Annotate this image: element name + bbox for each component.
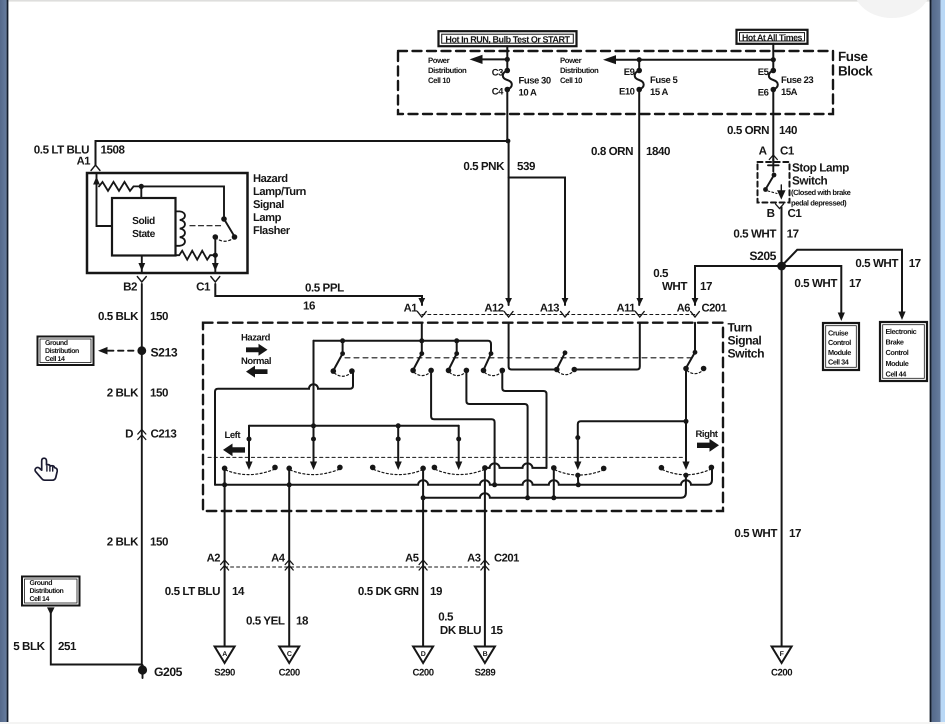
- label: Turn Signal Switch: [728, 321, 765, 361]
- ground node G205: [138, 665, 147, 678]
- switch S4: [481, 351, 505, 375]
- wire: C1 leg down with arrow: [212, 237, 219, 272]
- svg-text:B: B: [767, 207, 775, 220]
- wire: S205 to cruise control module with arrow: [782, 266, 845, 321]
- bus2 wire (lower output bus): [423, 475, 686, 498]
- wire: 0.5 PPL 16 from flasher C1 to switch A1: [215, 284, 422, 305]
- svg-text:S289: S289: [475, 668, 496, 679]
- node: left bus junction at hazard vertical: [311, 423, 316, 428]
- wire: A1 entry inside flasher with up arrow: [93, 174, 112, 226]
- wire: B2 leg down with arrow: [138, 256, 145, 272]
- node S213 splice: [137, 346, 146, 355]
- label: Hazard with right arrow: [241, 333, 271, 356]
- svg-text:C213: C213: [151, 428, 178, 441]
- wire: A11 entry down and left to S5 right contact: [574, 323, 640, 370]
- wire: S4 right contact staircase down to A3 contact link: [502, 370, 546, 468]
- svg-text:S290: S290: [214, 668, 235, 679]
- svg-text:0.5 WHT: 0.5 WHT: [855, 257, 898, 270]
- svg-text:A1: A1: [404, 302, 418, 314]
- node: dot on second wiper stub: [575, 435, 580, 440]
- svg-text:A1: A1: [77, 156, 91, 168]
- svg-text:Cell 44: Cell 44: [886, 369, 908, 378]
- svg-text:C1: C1: [788, 207, 803, 220]
- svg-text:539: 539: [517, 160, 536, 173]
- svg-text:Signal: Signal: [253, 199, 284, 211]
- connector triangle D / C200: [413, 647, 434, 679]
- resistor R1 in flasher: [99, 182, 141, 191]
- svg-text:150: 150: [150, 310, 168, 323]
- svg-text:Turn: Turn: [728, 321, 752, 335]
- stop lamp switch dashed box: [758, 162, 790, 203]
- hazard flasher module U1 outer box: [87, 173, 248, 273]
- svg-text:Switch: Switch: [792, 174, 828, 188]
- wire: left bus stub 3 with wiper arrow: [455, 426, 462, 470]
- svg-text:0.5: 0.5: [653, 267, 669, 280]
- svg-text:Electronic: Electronic: [886, 327, 917, 336]
- svg-text:Lamp: Lamp: [253, 212, 282, 224]
- node: junction on S6 left contact drop: [684, 419, 689, 424]
- wire: arrow to Power Distribution (middle fuse) from Hot At All Times feed: [603, 55, 773, 64]
- label box "Hot At All Times": [737, 30, 808, 44]
- svg-text:Block: Block: [838, 64, 873, 79]
- svg-text:0.5 LT BLU: 0.5 LT BLU: [165, 585, 220, 598]
- wire: second wiper contact to bus1: [577, 475, 580, 485]
- svg-text:Power: Power: [560, 56, 582, 65]
- svg-text:0.5 DK GRN: 0.5 DK GRN: [358, 585, 419, 598]
- svg-text:Solid: Solid: [132, 216, 155, 227]
- svg-text:15: 15: [491, 624, 504, 637]
- svg-text:Left: Left: [225, 430, 242, 441]
- wire: S3 right contact staircase down to bus2: [466, 370, 527, 497]
- connector triangle F / C200: [771, 647, 792, 679]
- node: stub dot on hazard vertical: [311, 437, 316, 442]
- node: left bus junction at 398.2: [396, 423, 401, 428]
- svg-text:B2: B2: [123, 281, 137, 294]
- svg-text:C3: C3: [492, 68, 503, 79]
- arrowhead: second right wiper (x=577.8): [574, 462, 581, 471]
- svg-text:Flasher: Flasher: [253, 225, 291, 237]
- wire: S205 left to turn signal switch A6: [695, 266, 782, 305]
- wire: junction down into solid state box: [140, 186, 142, 198]
- svg-text:2 BLK: 2 BLK: [107, 535, 139, 548]
- svg-text:Right: Right: [696, 429, 719, 440]
- label: Power Distribution Cell 10 (middle): [560, 56, 599, 85]
- ground distribution reference box (lower): [22, 577, 80, 606]
- svg-text:17: 17: [909, 257, 921, 270]
- node: bus1 junction at A4: [287, 482, 292, 487]
- connector chevron at stop lamp B: [776, 204, 784, 209]
- svg-text:1840: 1840: [646, 145, 670, 158]
- wire: 0.8 ORN from E10 down to A11: [638, 92, 640, 305]
- svg-text:14: 14: [232, 585, 245, 598]
- wire: 0.5 ORN from E6 down to stop lamp switch A: [772, 92, 774, 163]
- switch S1: [331, 351, 355, 376]
- svg-text:Power: Power: [428, 56, 450, 65]
- wire: hazard feed vertical from H1 down to left bus and wiper arrow: [313, 341, 315, 463]
- resistor R2 in flasher: [176, 251, 216, 260]
- wire: S6 left contact down to right wiper arrow: [685, 369, 687, 463]
- svg-text:S205: S205: [749, 249, 776, 263]
- wire: 0.5 WHT 17 from S205 down to C200 pin F: [781, 266, 783, 646]
- svg-text:150: 150: [150, 535, 168, 548]
- svg-text:Cell 14: Cell 14: [30, 595, 50, 603]
- svg-text:C4: C4: [492, 87, 504, 98]
- svg-text:0.5 WHT: 0.5 WHT: [734, 527, 777, 540]
- node: bus2 junction at A5: [421, 495, 426, 500]
- node S205 splice: [777, 262, 786, 271]
- wire: 5 BLK 251 from ground cell box to G205: [47, 607, 143, 669]
- svg-text:A3: A3: [467, 552, 481, 564]
- svg-text:1508: 1508: [101, 144, 126, 157]
- label: Hazard Lamp/Turn Signal Lamp Flasher: [253, 173, 307, 237]
- svg-text:140: 140: [779, 124, 797, 137]
- relay coil L1 on side of solid state box: [176, 211, 185, 245]
- fuse F1 "Fuse 30 10 A" pins C3/C4: [492, 68, 551, 99]
- svg-text:C1: C1: [196, 281, 211, 294]
- svg-text:0.5 PPL: 0.5 PPL: [305, 281, 344, 294]
- node: junction dot on C3 feed: [505, 57, 510, 62]
- node: bus1 junction at S2 staircase: [492, 482, 497, 487]
- svg-text:E9: E9: [624, 67, 635, 78]
- label box "Hot In RUN, Bulb Test Or START": [439, 31, 577, 46]
- node: bus2 junction at 553.8: [551, 495, 556, 500]
- cursor knuckles: [47, 466, 53, 471]
- wire: A1 entry down to switch S1 pivot: [421, 323, 423, 354]
- node: junction dot E9 feed: [637, 57, 642, 62]
- turn signal switch dashed box: [203, 323, 723, 511]
- svg-text:A2: A2: [207, 552, 221, 564]
- connector triangle A / S290: [214, 647, 235, 679]
- node: junction on C1 leg: [213, 253, 218, 258]
- svg-text:Cell 34: Cell 34: [828, 357, 850, 366]
- svg-text:0.8 ORN: 0.8 ORN: [591, 145, 633, 158]
- svg-text:17: 17: [849, 277, 861, 290]
- svg-text:Brake: Brake: [886, 338, 904, 347]
- label: Stop Lamp Switch: [791, 161, 851, 208]
- svg-text:D: D: [421, 651, 426, 658]
- svg-text:Distribution: Distribution: [560, 66, 599, 75]
- wire: A2 output 0.5 LT BLU 14: [224, 468, 226, 646]
- wire: 0.5 WHT 17 from stop lamp B down to S205: [781, 207, 783, 266]
- svg-text:Distribution: Distribution: [30, 587, 64, 595]
- dashed reference wire with arrow to ground cell box: [98, 347, 138, 355]
- svg-text:WHT: WHT: [662, 280, 687, 293]
- svg-text:(Closed with brake: (Closed with brake: [791, 188, 851, 197]
- mechanical link dashed line (upper switch row): [345, 357, 692, 359]
- wire: A6 entry down to S6 pivot: [694, 323, 696, 353]
- svg-text:Hot In RUN, Bulb Test Or START: Hot In RUN, Bulb Test Or START: [445, 35, 570, 45]
- svg-text:19: 19: [430, 585, 443, 598]
- svg-text:Signal: Signal: [728, 334, 762, 348]
- wire: right feed horizontal to second wiper stub: [578, 421, 686, 462]
- svg-text:C201: C201: [702, 302, 727, 314]
- svg-text:Hot At All Times: Hot At All Times: [742, 33, 802, 43]
- wire: stub H1 to S3 pivot: [456, 341, 458, 354]
- mechanical link dashed line (lower contact row): [208, 456, 684, 458]
- svg-text:C201: C201: [494, 552, 519, 564]
- wire: 0.5 BLK / 2 BLK ground run from B2 down to G205: [141, 284, 143, 669]
- svg-text:Lamp/Turn: Lamp/Turn: [253, 186, 307, 198]
- svg-text:Module: Module: [828, 348, 851, 357]
- wire: left bus stub 1 with wiper arrow: [245, 426, 252, 470]
- arrowhead: right wiper (x=686): [682, 462, 689, 471]
- svg-text:251: 251: [58, 640, 77, 653]
- node: bus2 junction at S3 staircase: [525, 495, 530, 500]
- wire: A12 entry down and right to S5 left contact: [509, 323, 557, 370]
- connector chevrons at A1,A12,A13,A11,A6: [417, 298, 699, 317]
- wire: stub H1 to S1 pivot: [342, 341, 344, 354]
- wire W3: A3 contact link (hops two verticals): [485, 463, 547, 468]
- wire: left bus stub 2 with wiper arrow: [395, 426, 402, 470]
- wire: S2 right contact staircase down to bus1: [431, 370, 495, 484]
- svg-text:State: State: [132, 229, 155, 240]
- svg-text:Distribution: Distribution: [428, 66, 467, 75]
- connector chevron at stop lamp A: [769, 155, 777, 160]
- svg-text:A4: A4: [271, 552, 286, 564]
- ground distribution reference box (upper): [38, 337, 94, 366]
- switch S6 (A6): [683, 350, 706, 374]
- svg-text:17: 17: [789, 527, 801, 540]
- contact dots row: [222, 465, 714, 478]
- wire: C4 fuse output down to junction with LT BLU feed, continues as 0.5 PNK to A12: [507, 92, 508, 305]
- svg-text:A6: A6: [677, 302, 691, 314]
- svg-text:C: C: [287, 651, 292, 658]
- svg-text:2 BLK: 2 BLK: [107, 386, 139, 399]
- svg-text:0.5 PNK: 0.5 PNK: [463, 160, 505, 173]
- connector triangle B / S289: [475, 647, 496, 679]
- svg-text:Ground: Ground: [45, 339, 68, 347]
- svg-text:A: A: [222, 651, 227, 658]
- wire: contact 553.8 down to bus2: [553, 468, 555, 498]
- svg-text:Stop Lamp: Stop Lamp: [792, 161, 849, 175]
- switch S3: [446, 351, 470, 375]
- dotted wiper arcs (contact row): [226, 469, 711, 475]
- svg-text:S213: S213: [151, 345, 178, 359]
- svg-text:Cruise: Cruise: [828, 329, 848, 338]
- node: H1 junction at S3: [454, 338, 459, 343]
- wire: hazard feed bus H1: [314, 341, 492, 354]
- svg-text:C1: C1: [780, 145, 795, 158]
- wire: Hot At All Times down to E5: [772, 44, 774, 71]
- svg-text:A13: A13: [540, 302, 559, 314]
- svg-text:15A: 15A: [781, 87, 798, 98]
- svg-text:0.5 YEL: 0.5 YEL: [246, 615, 285, 628]
- wire: branch from PNK wire to A13: [509, 178, 565, 306]
- svg-text:Fuse 5: Fuse 5: [650, 75, 679, 86]
- label: Right with right arrow: [696, 429, 720, 452]
- node: H1 junction at A1: [419, 338, 424, 343]
- svg-text:17: 17: [787, 228, 799, 241]
- wire: 0.5 LT BLU 1508 from fuse to flasher A1: [96, 141, 509, 166]
- svg-text:A11: A11: [616, 302, 635, 314]
- svg-text:10 A: 10 A: [519, 88, 538, 99]
- connector C213 pin D chevrons: [138, 430, 146, 440]
- svg-text:Ground: Ground: [30, 579, 53, 587]
- connector triangle C / C200: [279, 647, 300, 679]
- svg-text:15 A: 15 A: [650, 87, 669, 98]
- svg-text:Module: Module: [886, 359, 909, 368]
- connector chevrons at A2,A4,A5,A3: [221, 560, 489, 570]
- svg-text:Cell 14: Cell 14: [45, 355, 65, 363]
- svg-text:Fuse 23: Fuse 23: [781, 75, 813, 86]
- svg-text:Cell 10: Cell 10: [560, 76, 583, 85]
- electronic brake control module reference box: [880, 322, 927, 381]
- arrowhead: hazard wiper (x=313.5): [310, 462, 317, 471]
- fuse F2 "Fuse 5 15 A" pins E9/E10: [619, 60, 679, 98]
- svg-text:C200: C200: [279, 668, 300, 679]
- label: Normal with left arrow: [241, 356, 271, 378]
- svg-text:5 BLK: 5 BLK: [13, 640, 45, 653]
- wire H2: S1 right contact to left riser (hops hazard vertical): [215, 371, 353, 485]
- svg-text:16: 16: [303, 299, 316, 312]
- svg-text:C200: C200: [771, 668, 792, 679]
- node: junction dot E5 feed: [771, 57, 776, 62]
- wire: from R1 junction right to flasher switch contact: [141, 186, 224, 216]
- svg-text:E6: E6: [758, 88, 769, 99]
- svg-text:B: B: [483, 651, 488, 658]
- connector C201 dotted line (top): [422, 314, 695, 316]
- node: bus1 junction at second wiper: [576, 482, 581, 487]
- svg-text:E10: E10: [619, 87, 635, 98]
- fuse block dashed box: [398, 51, 833, 114]
- connector chevron at flasher A1: [91, 165, 100, 171]
- svg-text:C200: C200: [413, 668, 434, 679]
- svg-text:G205: G205: [154, 665, 183, 679]
- svg-text:Cell 10: Cell 10: [428, 76, 451, 85]
- svg-text:Normal: Normal: [241, 356, 271, 367]
- connector C201 dotted line (bottom): [225, 566, 485, 568]
- svg-text:Control: Control: [886, 348, 909, 357]
- svg-text:A12: A12: [484, 302, 503, 314]
- svg-text:A: A: [759, 145, 768, 158]
- svg-text:Hazard: Hazard: [241, 333, 271, 344]
- node: bus1 junction at A2: [222, 482, 227, 487]
- svg-text:Fuse: Fuse: [838, 49, 867, 64]
- mouse cursor graphic: [35, 458, 57, 480]
- svg-text:Fuse 30: Fuse 30: [519, 76, 551, 87]
- node: junction of LT BLU branch: [506, 139, 511, 144]
- left bus wire at y=425.8: [249, 425, 459, 427]
- switch S5 (A13): [554, 350, 577, 374]
- wire: S205 to electronic brake control module with arrow: [782, 250, 906, 320]
- label: Left with left arrow: [223, 430, 245, 457]
- svg-text:E5: E5: [758, 67, 770, 78]
- svg-text:D: D: [125, 428, 133, 441]
- svg-text:0.5 WHT: 0.5 WHT: [733, 228, 776, 241]
- svg-text:A5: A5: [405, 552, 419, 564]
- svg-text:DK BLU: DK BLU: [440, 624, 481, 637]
- fuse F3 "Fuse 23 15A" pins E5/E6: [758, 67, 814, 99]
- wire: A5 output 0.5 DK GRN 19: [422, 468, 424, 646]
- svg-text:Control: Control: [828, 338, 851, 347]
- svg-text:0.5 WHT: 0.5 WHT: [794, 277, 837, 290]
- solid state box: [112, 198, 176, 256]
- svg-text:150: 150: [150, 386, 168, 399]
- wire: A3 output 0.5 DK BLU 15: [484, 468, 486, 646]
- wire: Hot In RUN box down to C3: [506, 46, 508, 70]
- dashed actuator link from coil to flasher switch: [190, 225, 221, 227]
- label: Power Distribution Cell 10 (left): [428, 56, 467, 85]
- svg-text:Distribution: Distribution: [45, 347, 79, 355]
- svg-text:Hazard: Hazard: [253, 173, 288, 185]
- svg-text:17: 17: [700, 280, 712, 293]
- svg-text:0.5: 0.5: [438, 611, 454, 624]
- flasher internal switch SW1: [213, 216, 238, 241]
- switch S2: [410, 351, 434, 375]
- svg-text:0.5 ORN: 0.5 ORN: [727, 124, 769, 137]
- svg-text:0.5 BLK: 0.5 BLK: [98, 310, 139, 323]
- stop lamp switch SW2: [763, 159, 784, 198]
- node: H1 junction at S1: [340, 338, 345, 343]
- connector chevrons below flasher at B2 and C1: [137, 277, 146, 283]
- bus1 wire (upper output bus): [215, 470, 712, 485]
- wire: arrow to Power Distribution (left fuse): [470, 55, 508, 64]
- svg-text:18: 18: [296, 615, 309, 628]
- node: junction above solid state box: [139, 184, 144, 189]
- svg-text:Switch: Switch: [728, 347, 765, 361]
- wire: A4 output 0.5 YEL 18: [288, 468, 290, 646]
- cruise control module reference box: [823, 323, 859, 370]
